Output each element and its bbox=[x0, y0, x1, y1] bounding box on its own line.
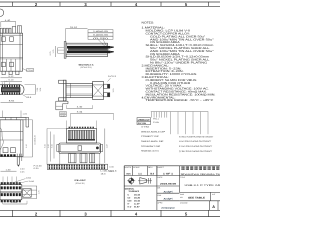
svg-text:TEMPERATURE RANGE: -55°C ~ +85: TEMPERATURE RANGE: -55°C ~ +85°C bbox=[146, 99, 214, 102]
svg-text:L=05.34±0.5: L=05.34±0.5 bbox=[101, 170, 118, 173]
svg-text:1.85: 1.85 bbox=[23, 113, 28, 116]
svg-text:GENERAL: GENERAL bbox=[125, 187, 135, 190]
svg-text:USB31-CF: USB31-CF bbox=[138, 119, 151, 122]
svg-text:(0.25): (0.25) bbox=[93, 37, 109, 40]
svg-text:0°: 0° bbox=[128, 203, 130, 206]
svg-text:Q: 30u" GOLD PLATING ON CONTAC: Q: 30u" GOLD PLATING ON CONTACT bbox=[179, 150, 213, 153]
svg-text:8.20: 8.20 bbox=[50, 144, 53, 148]
svg-text:2019.09.06: 2019.09.06 bbox=[160, 183, 177, 186]
svg-text:NO.: NO. bbox=[180, 196, 184, 199]
svg-text:SCALE: SCALE bbox=[133, 166, 140, 169]
svg-text:DATE: DATE bbox=[157, 176, 163, 179]
svg-text:GREAT ANGLE DIP: GREAT ANGLE DIP bbox=[141, 130, 166, 133]
svg-text:0.25: 0.25 bbox=[34, 167, 39, 170]
svg-text:B.0: B.0 bbox=[150, 172, 154, 175]
svg-text:NOTES:: NOTES: bbox=[142, 22, 155, 25]
svg-text:0.5°: 0.5° bbox=[134, 206, 140, 209]
svg-text:3.26: 3.26 bbox=[39, 88, 42, 92]
svg-text:8.20: 8.20 bbox=[43, 144, 46, 148]
svg-text:±0.15: ±0.15 bbox=[134, 194, 141, 197]
svg-text:P: 15u" GOLD PLATING ON CONTAC: P: 15u" GOLD PLATING ON CONTACT bbox=[179, 145, 213, 148]
svg-text:0°.2': 0°.2' bbox=[128, 206, 133, 209]
svg-text:AndyFi: AndyFi bbox=[164, 198, 173, 201]
svg-text:SQ#4(1.0.C): SQ#4(1.0.C) bbox=[141, 150, 159, 153]
svg-text:GY-0N: GY-0N bbox=[138, 122, 147, 125]
svg-text:6.10: 6.10 bbox=[25, 144, 28, 148]
svg-text:A: A bbox=[212, 205, 215, 209]
svg-text:SECTION A-A: SECTION A-A bbox=[79, 63, 95, 66]
svg-text:SHEAT ANGL DIP: SHEAT ANGL DIP bbox=[141, 140, 164, 143]
svg-text:4-7S#: 4-7S# bbox=[141, 126, 150, 129]
svg-text:USB 3.1 C TYPE 24P DIP 4: USB 3.1 C TYPE 24P DIP 4 bbox=[185, 184, 221, 187]
svg-text:3.10: 3.10 bbox=[112, 89, 115, 93]
svg-text:0.5: 0.5 bbox=[4, 80, 7, 83]
svg-text:P=0.50: P=0.50 bbox=[34, 164, 42, 167]
svg-text:SEE TABLE: SEE TABLE bbox=[188, 197, 206, 200]
svg-text:SHEET: SHEET bbox=[157, 166, 164, 169]
svg-text:±0.20: ±0.20 bbox=[134, 197, 141, 200]
svg-text:Shenzhen Gloriola Technology: Shenzhen Gloriola Technology bbox=[181, 173, 221, 176]
svg-text:(SCALE 2/1): (SCALE 2/1) bbox=[81, 66, 92, 69]
svg-text:R0.6: R0.6 bbox=[26, 96, 31, 99]
svg-text:CHANGE: CHANGE bbox=[180, 201, 188, 204]
svg-text:(SCALE 2/1): (SCALE 2/1) bbox=[76, 182, 85, 185]
svg-text:N: 5u" GOLD PLATING ON CONTACT: N: 5u" GOLD PLATING ON CONTACT bbox=[179, 140, 212, 143]
svg-text:2.56: 2.56 bbox=[36, 88, 39, 92]
svg-text:TOLERANCE: TOLERANCE bbox=[129, 190, 140, 193]
svg-text:±0.10: ±0.10 bbox=[134, 200, 141, 203]
svg-text:8.20: 8.20 bbox=[47, 144, 50, 148]
svg-text:0.30: 0.30 bbox=[29, 180, 34, 183]
svg-text:1 OF 1: 1 OF 1 bbox=[163, 172, 174, 175]
svg-text:12.60: 12.60 bbox=[11, 201, 19, 204]
svg-text:1.0°: 1.0° bbox=[134, 203, 140, 206]
svg-text:AndyFi: AndyFi bbox=[164, 190, 173, 193]
svg-text:G: GOLD FLASH PLATING ON CONTA: G: GOLD FLASH PLATING ON CONTACT bbox=[179, 135, 214, 138]
svg-text:0.05: 0.05 bbox=[20, 170, 25, 173]
svg-text:UNITS: UNITS bbox=[125, 166, 132, 169]
svg-text:1.75: 1.75 bbox=[52, 50, 55, 54]
svg-text:11.07: 11.07 bbox=[105, 144, 108, 148]
svg-text:mm: mm bbox=[126, 172, 130, 175]
svg-text:0.30: 0.30 bbox=[20, 168, 25, 171]
svg-text:STRAIGHT DIP: STRAIGHT DIP bbox=[141, 145, 161, 148]
svg-text:2-C0.3: 2-C0.3 bbox=[108, 75, 116, 78]
svg-text:0.60: 0.60 bbox=[26, 176, 31, 179]
svg-text:0.05: 0.05 bbox=[61, 114, 66, 117]
svg-text:10.20±0.20: 10.20±0.20 bbox=[34, 135, 37, 144]
svg-text:0.80: 0.80 bbox=[109, 165, 114, 168]
svg-text:zhenjiangnan: zhenjiangnan bbox=[161, 206, 175, 209]
svg-text:DWG: DWG bbox=[180, 193, 185, 196]
svg-text:PCB LAYOUT: PCB LAYOUT bbox=[75, 179, 87, 182]
svg-text:1.70: 1.70 bbox=[38, 190, 41, 194]
svg-text:GY:0N: GY:0N bbox=[153, 121, 160, 124]
svg-text:DR.: DR. bbox=[157, 187, 161, 190]
svg-text:0.70: 0.70 bbox=[49, 52, 52, 56]
svg-text:CONNECT DIP: CONNECT DIP bbox=[141, 135, 159, 138]
svg-text:APPD: APPD bbox=[157, 201, 163, 204]
